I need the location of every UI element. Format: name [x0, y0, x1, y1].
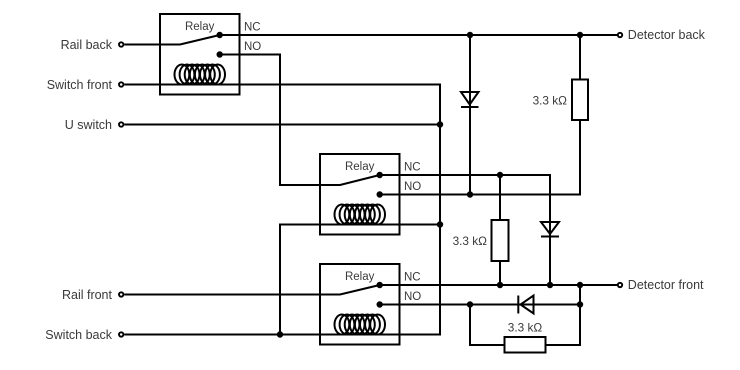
- svg-text:3.3 kΩ: 3.3 kΩ: [453, 234, 488, 248]
- svg-text:Relay: Relay: [345, 271, 375, 283]
- svg-text:NC: NC: [404, 162, 421, 174]
- svg-text:NC: NC: [404, 272, 421, 284]
- svg-text:Relay: Relay: [185, 21, 215, 33]
- svg-text:Rail front: Rail front: [62, 288, 113, 302]
- svg-text:NC: NC: [244, 22, 261, 34]
- svg-text:Detector back: Detector back: [628, 28, 706, 42]
- svg-text:Switch back: Switch back: [45, 328, 112, 342]
- svg-text:NO: NO: [244, 41, 261, 53]
- svg-text:Detector front: Detector front: [628, 278, 704, 292]
- svg-text:NO: NO: [404, 181, 421, 193]
- svg-text:Relay: Relay: [345, 161, 375, 173]
- svg-text:3.3 kΩ: 3.3 kΩ: [508, 321, 543, 335]
- svg-text:Rail back: Rail back: [61, 38, 113, 52]
- svg-text:NO: NO: [404, 291, 421, 303]
- svg-text:3.3 kΩ: 3.3 kΩ: [533, 94, 568, 108]
- svg-text:U switch: U switch: [65, 118, 112, 132]
- svg-text:Switch front: Switch front: [47, 78, 113, 92]
